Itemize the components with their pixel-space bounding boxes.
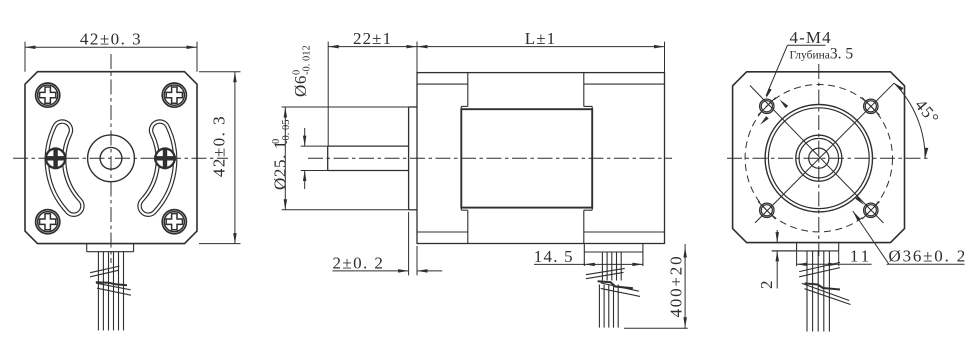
svg-text:2: 2 [757,279,776,289]
svg-text:400+20: 400+20 [667,255,686,318]
svg-text:-0. 05: -0. 05 [281,120,292,145]
svg-text:Ø25. 1: Ø25. 1 [271,140,290,190]
svg-text:14. 5: 14. 5 [534,247,574,266]
svg-text:42±0. 3: 42±0. 3 [210,115,229,177]
svg-text:22±1: 22±1 [353,29,392,48]
svg-text:4-M4: 4-M4 [790,28,832,47]
svg-text:11: 11 [850,247,872,266]
svg-text:42±0. 3: 42±0. 3 [80,30,142,49]
svg-text:Ø36±0. 2: Ø36±0. 2 [889,247,968,266]
svg-text:2±0. 2: 2±0. 2 [333,254,385,273]
svg-text:L±1: L±1 [525,29,557,48]
svg-text:-0. 012: -0. 012 [302,45,313,75]
svg-text:Ø6: Ø6 [291,75,310,97]
